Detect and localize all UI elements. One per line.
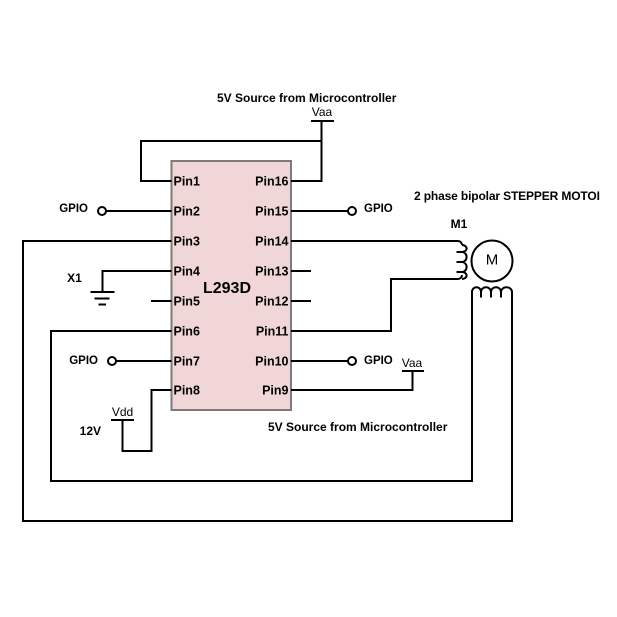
svg-text:Pin2: Pin2: [174, 205, 200, 219]
wire Pin9 to Vaa (bottom): [291, 372, 413, 390]
terminal circle GPIO (Pin2): [98, 207, 106, 215]
terminal circle GPIO (Pin15): [348, 207, 356, 215]
IC U1 L293D body: [172, 161, 292, 410]
power symbol Vaa (top) bar: [311, 120, 334, 122]
svg-text:Pin7: Pin7: [174, 355, 200, 369]
wire Pin13 stub: [291, 270, 311, 272]
svg-text:Pin6: Pin6: [174, 325, 200, 339]
svg-text:5V Source from Microcontroller: 5V Source from Microcontroller: [217, 91, 397, 105]
wire Pin4 to ground: [103, 271, 172, 291]
svg-text:L293D: L293D: [203, 280, 251, 297]
power symbol Vdd bar: [111, 419, 134, 421]
svg-text:Vdd: Vdd: [112, 405, 133, 419]
wire Pin1 to Vaa top loop: [141, 141, 322, 181]
svg-text:X1: X1: [67, 271, 82, 285]
power symbol Vaa (bottom) bar: [402, 370, 424, 372]
wire Pin5 stub: [151, 300, 172, 302]
wire Pin11 to motor coil A bottom: [291, 279, 458, 331]
svg-text:12V: 12V: [80, 424, 101, 438]
svg-text:GPIO: GPIO: [69, 355, 98, 367]
wire Pin12 stub: [291, 300, 311, 302]
svg-text:M: M: [486, 252, 499, 269]
svg-text:GPIO: GPIO: [364, 203, 393, 215]
motor M1 body circle: [472, 241, 513, 282]
svg-text:2 phase bipolar STEPPER MOTOI: 2 phase bipolar STEPPER MOTOI: [414, 189, 600, 203]
svg-text:Pin4: Pin4: [174, 265, 200, 279]
wire Pin10 to GPIO terminal: [291, 360, 348, 362]
svg-text:Pin3: Pin3: [174, 235, 200, 249]
svg-text:Pin13: Pin13: [255, 265, 288, 279]
svg-text:Pin5: Pin5: [174, 295, 200, 309]
wire Pin8 to Vdd: [123, 390, 172, 451]
svg-text:Vaa: Vaa: [312, 105, 333, 119]
wire Vaa riser to Pin16: [291, 121, 322, 181]
svg-text:GPIO: GPIO: [59, 203, 88, 215]
svg-text:M1: M1: [451, 217, 468, 231]
svg-text:Pin12: Pin12: [255, 295, 288, 309]
svg-text:GPIO: GPIO: [364, 355, 393, 367]
svg-text:5V Source from Microcontroller: 5V Source from Microcontroller: [268, 420, 448, 434]
svg-text:Pin15: Pin15: [255, 205, 288, 219]
motor M1 winding A (vertical coil): [457, 241, 467, 279]
motor M1 winding B (horizontal coil): [472, 287, 512, 297]
wire Pin14 to motor coil A top: [291, 240, 458, 242]
svg-text:Pin16: Pin16: [255, 175, 288, 189]
ground symbol: [91, 292, 115, 305]
svg-text:Pin1: Pin1: [174, 175, 200, 189]
terminal circle GPIO (Pin7): [108, 357, 116, 365]
wire Pin3 outer loop to motor winding right terminal: [23, 241, 512, 521]
svg-text:Pin9: Pin9: [262, 384, 288, 398]
svg-text:Pin11: Pin11: [256, 325, 289, 339]
wire Pin6 inner loop to motor winding left terminal: [51, 292, 472, 481]
svg-text:Pin8: Pin8: [174, 384, 200, 398]
wire Pin2 to GPIO terminal: [107, 210, 172, 212]
svg-text:Pin10: Pin10: [255, 355, 288, 369]
svg-text:Vaa: Vaa: [402, 356, 423, 370]
wire Pin7 to GPIO terminal: [117, 360, 172, 362]
terminal circle GPIO (Pin10): [348, 357, 356, 365]
svg-text:Pin14: Pin14: [255, 235, 288, 249]
wire Pin15 to GPIO terminal: [291, 210, 348, 212]
